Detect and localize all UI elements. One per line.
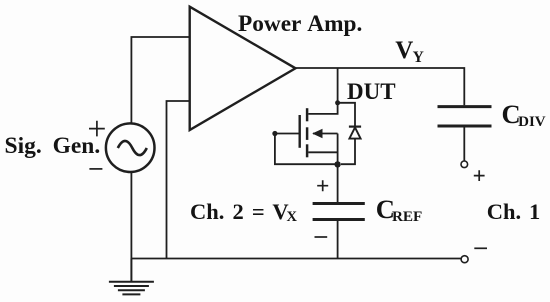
label Ch. 2 = VX: [190, 201, 297, 224]
wire Sig. Gen. bottom to rail: [130, 172, 132, 259]
wire top input from Sig. Gen. to op-amp: [131, 37, 189, 124]
wire gate to source tie: [275, 134, 336, 165]
label DUT: [347, 80, 396, 103]
label VY node: [395, 38, 423, 63]
minus sign at source bottom: [89, 168, 102, 170]
label Sig. Gen.: [5, 135, 101, 159]
op-amp U1 Power Amp triangle: [190, 7, 296, 130]
label CDIV: [502, 101, 546, 128]
plus sign at CREF top: [317, 180, 328, 191]
label Ch. 1: [487, 201, 540, 224]
source SG sine generator circle: [106, 123, 155, 172]
wire op-amp output to CDIV: [296, 68, 465, 105]
wire bottom rail: [131, 258, 461, 260]
node drain junction dot: [335, 100, 340, 105]
minus sign at Ch.1 bottom terminal: [474, 247, 487, 249]
node source junction dot: [334, 161, 340, 167]
wire CDIV bottom lead: [463, 128, 465, 161]
terminal Ch.1 plus open circle: [461, 161, 468, 168]
ground symbol: [109, 259, 154, 295]
wire CREF bottom lead: [337, 221, 339, 259]
diode D1 body diode: [338, 103, 362, 164]
wire drain branch from output: [337, 68, 339, 101]
capacitor CDIV: [438, 107, 492, 126]
transistor Q1 DUT n-channel MOSFET: [276, 103, 338, 165]
node gate tie dot: [272, 131, 277, 136]
capacitor CREF: [313, 204, 365, 220]
plus sign at source top: [89, 121, 105, 137]
plus sign at Ch.1 plus terminal: [474, 170, 485, 181]
label CREF: [376, 196, 423, 223]
wire feedback input from bottom rail to op-amp: [167, 101, 190, 259]
terminal Ch.1 minus open circle: [461, 256, 468, 263]
minus sign at CREF bottom: [315, 236, 328, 238]
wire CREF top lead: [337, 164, 339, 202]
label Power Amp.: [238, 13, 362, 36]
